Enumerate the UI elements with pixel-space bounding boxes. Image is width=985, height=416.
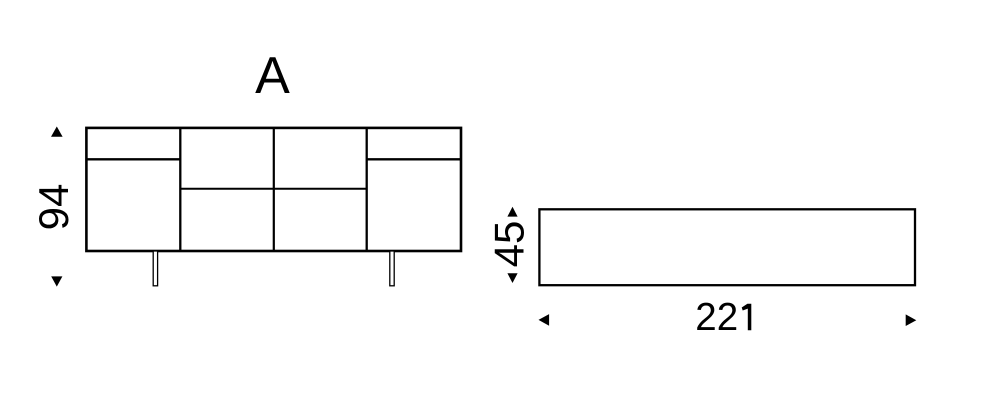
height dimension up arrow (51, 127, 63, 137)
depth dimension down arrow (507, 273, 517, 283)
width dimension right arrow (906, 314, 917, 326)
vertical divider 3 (366, 128, 368, 251)
depth dimension up arrow (507, 207, 517, 217)
vertical divider 1 (179, 128, 181, 251)
right leg (390, 251, 394, 286)
svg-text:94: 94 (30, 184, 77, 231)
vertical divider 2 (centre) (273, 128, 275, 251)
svg-text:45: 45 (486, 221, 533, 268)
svg-text:22: 22 (695, 296, 738, 339)
left leg (153, 251, 157, 286)
right drawer line (367, 158, 461, 160)
left drawer line (86, 158, 180, 160)
width dimension left arrow (539, 314, 550, 326)
top view outline (539, 209, 915, 285)
centre shelf line (180, 188, 366, 190)
height dimension down arrow (51, 276, 62, 286)
cabinet outline (front view body) (86, 128, 461, 251)
svg-text:A: A (255, 47, 290, 105)
